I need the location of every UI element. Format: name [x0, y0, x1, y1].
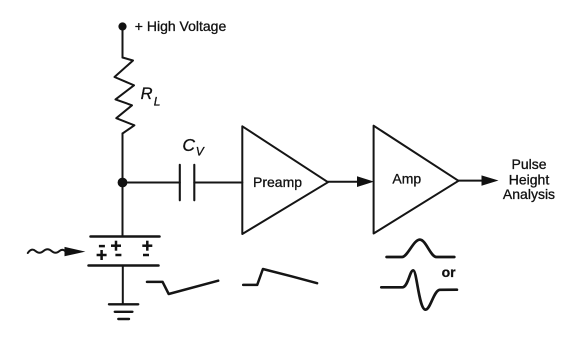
svg-text:C: C: [182, 135, 195, 155]
svg-text:Pulse: Pulse: [511, 156, 546, 172]
svg-text:R: R: [141, 85, 153, 103]
svg-text:Preamp: Preamp: [253, 174, 302, 190]
svg-text:V: V: [196, 145, 205, 159]
svg-text:Analysis: Analysis: [503, 186, 555, 202]
svg-text:+ High Voltage: + High Voltage: [135, 18, 227, 34]
svg-text:L: L: [154, 95, 161, 109]
svg-text:or: or: [442, 264, 457, 280]
svg-text:Amp: Amp: [392, 170, 421, 186]
